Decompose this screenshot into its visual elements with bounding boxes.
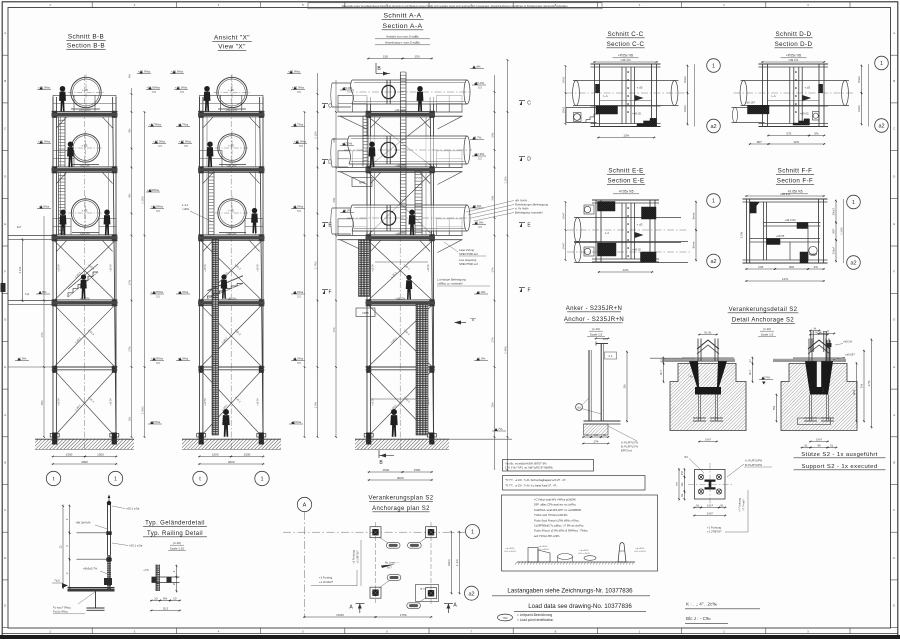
svg-text:+d9 34: +d9 34 xyxy=(256,398,259,406)
svg-text:1 5%: 1 5% xyxy=(313,401,317,408)
svg-text:1%a?: 1%a? xyxy=(832,246,836,254)
svg-text:Fcc2c 9%cc: Fcc2c 9%cc xyxy=(53,610,69,614)
block2 right tall dims xyxy=(863,350,865,423)
tower A-A pipe run 2 xyxy=(349,136,467,164)
railing rails xyxy=(77,532,108,534)
svg-text:5%: 5% xyxy=(772,406,776,411)
svg-text:+d9 34: +d9 34 xyxy=(109,264,112,272)
svg-text:=d?: =d? xyxy=(824,329,829,333)
tower B-B platform level 2 xyxy=(52,166,118,168)
svg-text:+7%: +7% xyxy=(143,568,149,572)
F-F bottom dims xyxy=(745,268,777,270)
svg-text:1.5: 1.5 xyxy=(821,388,825,392)
svg-text:+.d3: +.d3 xyxy=(637,86,643,90)
tower X platform level 1 xyxy=(198,110,265,112)
tower B-B pipe circle 3 xyxy=(71,199,99,227)
anchorage detail block 2 anchor pocket xyxy=(805,361,833,395)
tower B-B pipe circle 2 xyxy=(71,134,99,162)
svg-text:1500: 1500 xyxy=(66,452,73,456)
svg-text:Blc J : - C‰: Blc J : - C‰ xyxy=(686,616,711,621)
tower A-A ladder bay3-4 left xyxy=(359,240,370,297)
block2 bottom dims xyxy=(801,447,813,449)
D-D small box detail xyxy=(813,112,820,121)
svg-text:rm: rm xyxy=(674,482,678,486)
svg-text:a2: a2 xyxy=(850,261,856,267)
svg-text:Lastangaben siehe Zeichnungs-N: Lastangaben siehe Zeichnungs-Nr. 1037783… xyxy=(507,588,633,595)
tower B-B ladder bay1-2 xyxy=(58,117,60,167)
anker rod 1 xyxy=(588,350,590,421)
svg-text:'?'I:?'?.. .a 23> .?+%: Ke'bu: '?'I:?'?.. .a 23> .?+%: Ke'buchagbagesr'… xyxy=(505,478,567,482)
svg-text:Anordnung v. vorn 5 wdBc: Anordnung v. vorn 5 wdBc xyxy=(385,41,420,45)
svg-text:5.5: 5.5 xyxy=(152,90,156,94)
svg-text:+d9 34: +d9 34 xyxy=(427,264,430,272)
anchorage detail block 2 top plate xyxy=(773,360,846,362)
E-E pipe run lower xyxy=(574,241,688,243)
svg-text:C: C xyxy=(527,101,531,107)
svg-text:Anchor - S235JR+N: Anchor - S235JR+N xyxy=(564,317,624,323)
tower B-B rail level2 xyxy=(53,150,74,152)
notes box 2 xyxy=(503,476,646,491)
svg-text:F: F xyxy=(4,270,6,274)
C-C bottom dim xyxy=(597,137,656,139)
svg-text:7%hcc wcd 7%%ca tp'90.9%.: 7%hcc wcd 7%%ca tp'90.9%. xyxy=(534,513,568,517)
svg-text:1%25: 1%25 xyxy=(336,613,344,617)
svg-text:E: E xyxy=(893,604,895,608)
anker base plate xyxy=(584,420,621,422)
border tick marks bottom xyxy=(91,628,93,634)
svg-text:9%: 9% xyxy=(127,128,131,132)
top disclaimer strip xyxy=(308,3,602,9)
svg-text:10: 10 xyxy=(173,596,177,600)
tower B-B stair rail posts xyxy=(68,264,98,289)
load point legend oval xyxy=(498,614,513,621)
svg-text:H: H xyxy=(893,365,895,369)
svg-text:1 7%1: 1 7%1 xyxy=(313,261,317,269)
svg-text:a2: a2 xyxy=(468,591,474,597)
svg-text:90?: 90? xyxy=(757,140,762,144)
tower X right column xyxy=(260,97,263,437)
tower X guard rails top xyxy=(200,94,264,96)
tower A-A pipe run 2 flange xyxy=(386,136,388,164)
E-E pipe run upper xyxy=(574,217,681,219)
svg-text:Load data see drawing-No. 1037: Load data see drawing-No. 10377836 xyxy=(528,603,632,610)
svg-text:90: 90 xyxy=(817,443,821,447)
person on tower X platform 3 xyxy=(251,208,258,233)
svg-text:+? ?=ntr?: +? ?=ntr? xyxy=(742,499,746,511)
tower A-A bottom dims xyxy=(368,471,405,473)
svg-text:h25: h25 xyxy=(758,265,763,269)
tower X interior posts upper bays xyxy=(206,116,208,167)
C-C stub steps xyxy=(582,114,598,122)
svg-text:(1.10): (1.10) xyxy=(763,327,771,331)
left stub pipe segment xyxy=(332,82,351,84)
tower B-B grid bubble t xyxy=(46,471,60,485)
D-D lower stub pipe xyxy=(732,107,765,109)
svg-text:a2: a2 xyxy=(878,124,884,130)
svg-text:Schnitt E-E: Schnitt E-E xyxy=(608,168,643,175)
tower A-A pipe run 3 xyxy=(352,205,467,231)
tower A-A upper X-brace bay1-2 xyxy=(369,117,433,167)
person on tower A-A platform 3 xyxy=(409,209,416,235)
person on tower B-B platform 1 xyxy=(59,86,66,112)
svg-text:+d9.2%: +d9.2% xyxy=(395,296,406,300)
tower B-B left column xyxy=(52,97,54,437)
tower B-B X-brace bay 4-5 xyxy=(55,305,115,366)
svg-text:E: E xyxy=(893,222,895,226)
svg-text:+d9.19%: +d9.19% xyxy=(79,108,91,112)
svg-text:+2 2!B?t2?: +2 2!B?t2? xyxy=(356,550,360,564)
person at tower A-A ground xyxy=(390,409,397,437)
tower A-A platform level 5 xyxy=(366,366,436,368)
svg-text:NPB: NPB xyxy=(359,181,365,185)
person on tower B-B stairs xyxy=(80,274,87,298)
svg-text:1'9'I: 1'IrU'"UP1 .wt. 0aF'1cR: 1'9'I: 1'IrU'"UP1 .wt. 0aF'1cR2' B"-99cR… xyxy=(505,466,554,470)
svg-text:A: A xyxy=(4,31,6,35)
svg-text:11: 11 xyxy=(59,545,63,548)
svg-text:17%: 17% xyxy=(127,346,131,352)
F-F lower verticals xyxy=(789,242,791,260)
E-E dark gussets xyxy=(598,202,616,212)
svg-text:=d9 1%: =d9 1% xyxy=(780,192,791,196)
svg-text:B: PL/R?L/7%: B: PL/R?L/7% xyxy=(621,445,638,449)
svg-text:150: 150 xyxy=(383,54,388,58)
svg-text:+d9 34: +d9 34 xyxy=(204,264,207,272)
svg-text:Scale 1:5: Scale 1:5 xyxy=(761,333,774,337)
svg-text:Schnitt B-B: Schnitt B-B xyxy=(68,34,104,41)
person on tower A-A platform 2 xyxy=(369,141,376,167)
person on tower A-A platform 4 xyxy=(406,275,413,299)
svg-text:NPB: NPB xyxy=(362,311,368,315)
svg-text:90#: 90# xyxy=(789,265,794,269)
svg-text:9a?: 9a? xyxy=(17,225,22,229)
tower B-B ladder bay2-3 xyxy=(58,173,60,235)
svg-text:=d9 05: =d9 05 xyxy=(632,112,641,116)
svg-text:5.5: 5.5 xyxy=(156,294,160,298)
svg-text:1%: 1% xyxy=(623,384,627,389)
svg-text:Section C-C: Section C-C xyxy=(607,41,645,48)
svg-text:+.d5: +.d5 xyxy=(82,88,88,92)
plan right dims xyxy=(451,531,453,595)
block1 right dims xyxy=(752,357,754,366)
svg-text:1500: 1500 xyxy=(97,452,104,456)
svg-text:%: % xyxy=(603,433,606,437)
tower A-A pipe run 1 xyxy=(352,80,467,104)
svg-text:1500: 1500 xyxy=(212,452,219,456)
svg-text:1%: 1% xyxy=(680,471,684,476)
svg-text:B: B xyxy=(4,461,6,465)
svg-text:+d9.0%: +d9.0% xyxy=(226,163,237,167)
svg-text:Scale 1:5: Scale 1:5 xyxy=(590,333,603,337)
svg-text:B: B xyxy=(4,79,6,83)
svg-text:1.1%0: 1.1%0 xyxy=(839,227,843,235)
plan slotted insert 2 xyxy=(408,543,422,549)
svg-text:5L3: 5L3 xyxy=(163,606,168,610)
svg-text:View "X": View "X" xyxy=(218,44,246,51)
svg-text:1 5%1: 1 5%1 xyxy=(140,406,144,414)
svg-text:3000: 3000 xyxy=(397,476,404,480)
svg-text:150: 150 xyxy=(414,54,419,58)
tower X dim chain 2 xyxy=(304,112,306,437)
svg-text:17%: 17% xyxy=(40,332,44,338)
svg-text:Scale 1:10: Scale 1:10 xyxy=(170,547,185,551)
tower X column joint plates xyxy=(199,111,204,118)
plan centreline vertical xyxy=(304,512,306,618)
walkway line level 5 to border xyxy=(9,366,54,368)
svg-text:3%: 3% xyxy=(814,265,819,269)
F-F corner gusset dark xyxy=(750,202,760,214)
svg-text:A: A xyxy=(303,503,307,509)
svg-text:+d9 34: +d9 34 xyxy=(58,264,61,272)
tower A-A left column xyxy=(366,97,368,437)
anker 6d leader circle xyxy=(576,404,583,411)
C-C dark gussets xyxy=(596,106,618,114)
anker bottom dims xyxy=(582,436,593,438)
svg-text:Schnitt D-D: Schnitt D-D xyxy=(775,31,811,38)
svg-text:c%l +c5%%: c%l +c5%% xyxy=(634,551,646,553)
tower A-A pipe run 1 flange xyxy=(386,80,388,104)
svg-text:a2: a2 xyxy=(710,259,716,265)
plan centreline horizontal xyxy=(283,531,466,533)
svg-text:9L?: 9L? xyxy=(748,370,752,375)
svg-text:+d9.1%0: +d9.1%0 xyxy=(784,218,796,222)
person on tower A-A platform 1 xyxy=(417,86,424,112)
svg-text:+d9.0%: +d9.0% xyxy=(79,163,90,167)
F-F inner column xyxy=(763,202,765,260)
svg-text:5.5: 5.5 xyxy=(297,294,301,298)
svg-text:+2 Findung: +2 Findung xyxy=(352,550,356,564)
tower X left column xyxy=(199,97,201,437)
tower X bottom dimension row 2 xyxy=(198,463,265,465)
left border mark xyxy=(1,283,6,292)
svg-text:90?: 90? xyxy=(831,228,835,233)
anker rod 2 xyxy=(600,344,602,421)
svg-text:Verankerungsplan S2: Verankerungsplan S2 xyxy=(369,496,434,502)
D-D internal beam lines xyxy=(768,100,820,102)
svg-text:F: F xyxy=(527,288,530,294)
svg-text:Schnitt C-C: Schnitt C-C xyxy=(607,31,643,38)
svg-text:+1 2TB?t3?: +1 2TB?t3? xyxy=(707,530,722,534)
person on tower X platform 2 xyxy=(207,141,214,167)
anchorage detail block 2 bolts above xyxy=(808,339,810,362)
svg-text:1.1%: 1.1% xyxy=(18,266,22,273)
svg-text:5%: 5% xyxy=(814,131,819,135)
tower B-B X-brace bay 5-ground xyxy=(55,371,115,437)
tower A-A knee braces xyxy=(370,117,381,129)
anker right dim xyxy=(626,351,628,423)
svg-text:B: PL/R?L/P%: B: PL/R?L/P% xyxy=(745,463,763,467)
svg-text:Fccbc 9ccd Pcwcd c1'9% d9%c: Fccbc 9ccd Pcwcd c1'9% d9%c +0%cc xyxy=(534,518,580,522)
svg-text:5.5: 5.5 xyxy=(180,90,184,94)
block2 left small dim xyxy=(776,394,778,423)
svg-text:3%1: 3%1 xyxy=(332,197,336,203)
svg-text:L.A: L.A xyxy=(605,231,609,235)
svg-text:9%: 9% xyxy=(163,596,168,600)
svg-text:ud u50%: ud u50% xyxy=(539,546,548,548)
notes box 1 xyxy=(503,460,594,472)
svg-text:1%: 1% xyxy=(860,384,864,389)
svg-text:5L: 5L xyxy=(805,443,809,447)
svg-text:t a88ac cc +auswahl: t a88ac cc +auswahl xyxy=(437,282,463,286)
svg-text:= Leitpunkt-Bezeichnung: = Leitpunkt-Bezeichnung xyxy=(517,613,552,617)
tower B-B knee braces xyxy=(56,117,67,129)
tower A-A platform level 1 xyxy=(366,110,436,112)
svg-text:1.1m: 1.1m xyxy=(455,559,459,566)
svg-text:c%l +c5%%: c%l +c5%% xyxy=(578,553,590,555)
base plate leader 5d xyxy=(689,459,704,474)
anchorage detail block 1 concrete outline xyxy=(670,364,746,431)
svg-text:Weitergabe sowie Verviellaelt.: Weitergabe sowie Verviellaelt.dieses Dok… xyxy=(342,5,569,8)
block2 extra bolt xyxy=(826,340,828,361)
tower A-A platform level 4 xyxy=(366,299,436,301)
tower B-B right dim chain xyxy=(131,88,133,437)
bottom scan bar xyxy=(0,635,900,639)
svg-text:5.5: 5.5 xyxy=(156,209,160,213)
tower A-A right column xyxy=(430,97,433,437)
svg-text:7a4: 7a4 xyxy=(25,292,30,296)
tower A-A pipe run 3 flange xyxy=(386,205,388,231)
svg-text:(1.10): (1.10) xyxy=(173,541,181,545)
left stub pipe segment xyxy=(332,138,348,140)
svg-text:"X": "X" xyxy=(470,317,476,322)
C-C left dim xyxy=(565,66,567,124)
E-E left stub details xyxy=(584,205,594,214)
F-F elbow detail xyxy=(809,246,817,254)
svg-text:12%: 12% xyxy=(793,140,799,144)
svg-text:9mm: 9mm xyxy=(447,559,451,566)
block1 left dims xyxy=(663,357,665,366)
svg-text:+d9 34: +d9 34 xyxy=(58,398,61,406)
tower B-B stair bay 3-4 xyxy=(68,272,98,297)
svg-text:A: PL/R?L/P%: A: PL/R?L/P% xyxy=(745,459,763,463)
railing small clamp detail xyxy=(104,578,112,585)
border tick marks left xyxy=(2,54,8,56)
tower B-B platform level 3 xyxy=(52,234,118,236)
svg-text:+d9.3%: +d9.3% xyxy=(79,231,90,235)
plan highlight plate 4 box xyxy=(416,585,439,602)
svg-text:3%1: 3%1 xyxy=(490,195,494,201)
tower A-A ladder bay4-ground right xyxy=(416,305,428,436)
E-E frame xyxy=(592,199,659,201)
F-F frame xyxy=(745,195,825,197)
tower A-A NPB box xyxy=(352,178,372,187)
tower X ground hatch xyxy=(182,438,281,440)
tower A-A ground line right extension xyxy=(449,438,512,440)
svg-text:1: 1 xyxy=(260,477,263,483)
svg-text:Detail Anchorage S2: Detail Anchorage S2 xyxy=(732,318,795,324)
svg-text:+.d5: +.d5 xyxy=(228,88,234,92)
svg-text:Ansicht "X": Ansicht "X" xyxy=(214,35,250,42)
svg-text:19%1: 19%1 xyxy=(561,76,565,83)
tower X right dim chain xyxy=(317,73,319,437)
tower A-A column bases xyxy=(364,434,373,438)
tower B-B platform level 1 xyxy=(52,110,118,112)
svg-text:3%: 3% xyxy=(127,416,131,420)
tower X pipe circle 3 xyxy=(218,199,246,227)
plan anchor-line verticals xyxy=(375,522,377,603)
D-D grid bubble 1 xyxy=(875,56,889,70)
notes box 3 skyline sketch xyxy=(517,561,635,563)
railing section detail right xyxy=(155,565,157,592)
tower X pipe circle 2 xyxy=(218,134,246,162)
svg-text:B: B xyxy=(893,79,895,83)
svg-text:'?'I:?'?.. .a 23> .?+%: h:c b: '?'I:?'?.. .a 23> .?+%: h:c band Kaaf 2?… xyxy=(505,484,558,488)
svg-text:+d9 05?: +d9 05? xyxy=(845,353,855,357)
tower X grid bubble 1 xyxy=(255,471,269,485)
D-D frame columns xyxy=(762,64,764,127)
svg-text:9mm: 9mm xyxy=(692,241,696,248)
svg-text:+.d5: +.d5 xyxy=(228,209,234,213)
svg-text:1: 1 xyxy=(114,477,117,483)
tower X upper ladder xyxy=(208,171,210,235)
F-F mid beam 1 xyxy=(764,222,821,224)
svg-text:17%: 17% xyxy=(867,380,871,386)
svg-text:1 11%: 1 11% xyxy=(503,176,507,184)
svg-text:+1 Fcnting: +1 Fcnting xyxy=(319,576,333,580)
svg-text:9L: 9L xyxy=(696,503,700,507)
svg-text:5.5: 5.5 xyxy=(478,156,482,160)
svg-text:+05.1 a 5a: +05.1 a 5a xyxy=(126,507,140,511)
tower A-A ground hatch xyxy=(355,438,449,440)
svg-text:15%: 15% xyxy=(490,402,494,408)
svg-text:c%l +c5%%: c%l +c5%% xyxy=(504,551,516,553)
tower A-A centre line xyxy=(399,75,401,451)
svg-text:3000: 3000 xyxy=(228,460,235,464)
svg-text:=d9 05: =d9 05 xyxy=(632,248,641,252)
anker leader texts xyxy=(608,426,637,441)
plan slotted insert 1 xyxy=(386,543,400,549)
svg-text:19%1: 19%1 xyxy=(561,106,565,113)
svg-text:+15.09%a: +15.09%a xyxy=(146,86,160,90)
svg-text:7a.5: 7a.5 xyxy=(54,579,60,583)
tower B-B column bases xyxy=(50,434,59,438)
anchorage detail block 1 top plate xyxy=(662,360,735,362)
tower X platform level 3 xyxy=(198,234,265,236)
anchorage detail block 2 rods below xyxy=(808,395,810,421)
anchorage detail block 1 bottom dim xyxy=(698,441,718,443)
E-E right dim xyxy=(695,201,697,232)
tower A-A platform extensions right xyxy=(434,111,463,113)
svg-text:9L: 9L xyxy=(680,493,684,497)
svg-text:+d9.3%: +d9.3% xyxy=(226,231,237,235)
svg-text:Section B-B: Section B-B xyxy=(67,43,105,50)
svg-text:%: % xyxy=(813,326,816,330)
svg-text:5.5: 5.5 xyxy=(297,90,301,94)
svg-text:Bu Leser ---: Bu Leser --- xyxy=(385,561,399,565)
C-C grid bubble 1 xyxy=(707,59,721,73)
svg-text:= Load point identification: = Load point identification xyxy=(517,618,553,622)
tower X stair bay 3-4 xyxy=(208,284,244,299)
svg-text:+.d5: +.d5 xyxy=(82,144,88,148)
railing left dim xyxy=(69,505,71,535)
anchorage detail block 1 rods below xyxy=(697,395,699,421)
svg-text:L.A: L.A xyxy=(771,94,775,98)
svg-text:2!: 2! xyxy=(172,583,176,586)
tower A-A upper ladder shaft xyxy=(400,72,402,235)
svg-text:+d9.05: +d9.05 xyxy=(776,234,785,238)
C-C top beam xyxy=(591,63,661,65)
tower A-A ladder ext level2-3 xyxy=(414,172,416,235)
tower A-A platform extensions left xyxy=(338,111,368,113)
svg-text:5.5: 5.5 xyxy=(184,144,188,148)
C-C grid bubble a2 xyxy=(707,119,721,133)
svg-text:5.5: 5.5 xyxy=(478,85,482,89)
D-D grid bubble a2 xyxy=(875,119,889,133)
svg-text:=d9 1%: =d9 1% xyxy=(788,58,799,62)
svg-text:5.5%: 5.5% xyxy=(740,231,744,238)
plan slotted insert 3 xyxy=(387,575,401,581)
svg-text:17%: 17% xyxy=(490,337,494,343)
anker rod top bend xyxy=(596,343,608,345)
